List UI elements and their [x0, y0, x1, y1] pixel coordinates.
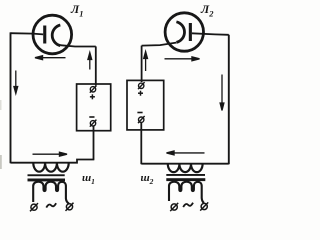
AC tilde T2	[183, 203, 193, 207]
rectifier box B2	[127, 80, 164, 129]
transformer T1 primary winding w1	[33, 163, 68, 172]
plus sign in B2	[138, 91, 143, 96]
transformer T2 core bar upper	[166, 174, 205, 176]
wire box B1 down to transformer	[93, 126, 95, 160]
wire transformer T1 top	[11, 160, 95, 163]
AC terminal left of T1	[30, 203, 38, 211]
current arrow left under tube	[35, 56, 66, 60]
rectifier box B1	[77, 84, 111, 131]
terminal top of B1	[90, 86, 97, 93]
AC terminal right of T1	[66, 203, 74, 211]
current arrow down on right wire	[220, 75, 224, 111]
wire tube U2 to right corner	[192, 33, 229, 35]
current arrow right under tube U2	[165, 57, 200, 61]
current arrow left above T2	[167, 151, 205, 155]
phototube U2 envelope	[165, 13, 203, 51]
wire transformer T2 top	[141, 163, 229, 165]
phototube U1 cathode arc	[52, 25, 60, 46]
transformer T1 core bar upper	[28, 174, 65, 176]
wire tube U2 to left corner	[142, 43, 177, 46]
wire left vertical	[10, 32, 12, 163]
wire vertical into box B1	[95, 46, 97, 85]
minus sign in B1	[89, 116, 94, 118]
terminal top of B2	[138, 82, 145, 89]
wire box B2 down to transformer	[140, 123, 142, 165]
scan smudge left edge	[0, 100, 2, 169]
current arrow up near box B2	[144, 52, 148, 72]
current arrow down on left wire	[14, 71, 18, 94]
current arrow right above T1	[33, 152, 68, 156]
plus sign in B1	[90, 94, 95, 99]
wire top-left to tube	[11, 33, 44, 34]
terminal bottom of B2	[138, 116, 145, 123]
wire vertical into box B2	[141, 46, 143, 82]
transformer T1 core bar lower	[28, 179, 66, 182]
AC tilde T1	[46, 203, 56, 207]
wire right vertical	[228, 35, 230, 164]
transformer T2 secondary winding	[169, 182, 204, 203]
minus sign in B2	[137, 112, 142, 114]
phototube U1 anode bar	[43, 26, 46, 44]
transformer T2 core bar lower	[166, 178, 205, 181]
phototube U2 anode bar	[189, 23, 192, 41]
phototube U1 envelope	[33, 15, 72, 54]
wire tube to box corner	[60, 45, 96, 46]
AC terminal right of T2	[200, 202, 208, 210]
transformer T2 primary winding w2	[168, 164, 203, 172]
current arrow up near box B1	[88, 53, 92, 70]
AC terminal left of T2	[170, 203, 178, 211]
terminal bottom of B1	[90, 120, 97, 127]
phototube U2 cathode arc	[176, 22, 184, 43]
transformer T1 secondary winding	[33, 182, 69, 204]
